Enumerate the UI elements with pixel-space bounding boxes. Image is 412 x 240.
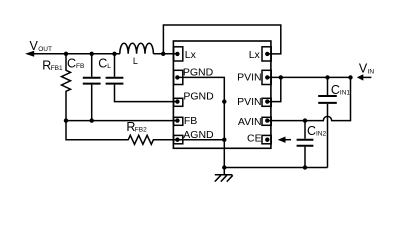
label CFB bbox=[67, 56, 84, 70]
capacitor CL bbox=[106, 54, 178, 102]
inductor L bbox=[120, 43, 178, 54]
svg-text:L: L bbox=[107, 63, 111, 70]
svg-text:C: C bbox=[67, 56, 76, 70]
resistor RFB2 bbox=[66, 121, 177, 145]
label VIN bbox=[359, 62, 375, 76]
pin Lx (left) bbox=[174, 47, 183, 61]
label CL bbox=[98, 56, 111, 70]
label CIN2 bbox=[307, 124, 327, 138]
wire PGND jumper to ground bbox=[177, 77, 226, 169]
svg-text:FB2: FB2 bbox=[135, 127, 147, 134]
pin PGND (upper left) bbox=[174, 70, 183, 84]
svg-text:C: C bbox=[98, 56, 107, 70]
IC body bbox=[173, 41, 271, 148]
svg-text:PGND: PGND bbox=[183, 90, 214, 102]
wire PVIN2 jumper bbox=[267, 77, 281, 101]
ground bbox=[215, 168, 233, 182]
svg-text:OUT: OUT bbox=[38, 46, 52, 53]
capacitor CIN2 bbox=[297, 121, 314, 170]
svg-text:C: C bbox=[307, 124, 316, 138]
svg-text:FB: FB bbox=[76, 63, 84, 70]
svg-text:PVIN: PVIN bbox=[237, 72, 262, 84]
wire AVIN row with hop over CIN1 bbox=[267, 77, 350, 122]
label RFB2 bbox=[126, 120, 147, 134]
node VOUT bbox=[25, 51, 120, 57]
wire ground rail bbox=[224, 167, 327, 169]
resistor RFB1 bbox=[62, 54, 71, 121]
svg-text:IN1: IN1 bbox=[340, 90, 351, 97]
wire FB row bbox=[64, 118, 178, 122]
label VOUT bbox=[30, 39, 52, 53]
svg-text:FB: FB bbox=[184, 115, 197, 127]
pin CE bbox=[262, 135, 271, 143]
label CIN1 bbox=[331, 83, 351, 97]
svg-text:IN2: IN2 bbox=[316, 131, 327, 138]
capacitor CIN1 bbox=[318, 77, 337, 167]
svg-text:V: V bbox=[30, 39, 39, 53]
junction dots on VOUT rail bbox=[64, 52, 117, 56]
wire Lx top loop bbox=[161, 25, 281, 56]
svg-text:C: C bbox=[331, 83, 340, 97]
label RFB1 bbox=[42, 58, 63, 72]
pin PVIN (lower) bbox=[262, 98, 271, 106]
svg-text:V: V bbox=[359, 62, 368, 76]
wire AGND to ground stem bbox=[177, 139, 224, 141]
pin AVIN bbox=[262, 117, 271, 125]
pin PGND (lower left) bbox=[174, 98, 183, 106]
pin AGND bbox=[174, 135, 183, 143]
svg-text:CE: CE bbox=[247, 133, 262, 145]
pin FB bbox=[174, 117, 183, 125]
pin Lx (right) bbox=[262, 47, 271, 61]
node VIN bbox=[357, 74, 372, 80]
svg-text:AGND: AGND bbox=[183, 129, 214, 141]
wire PVIN rail bbox=[267, 75, 352, 79]
svg-text:FB1: FB1 bbox=[51, 65, 63, 72]
svg-text:IN: IN bbox=[368, 68, 375, 75]
svg-text:PVIN: PVIN bbox=[237, 96, 262, 108]
svg-text:L: L bbox=[133, 56, 138, 66]
svg-text:AVIN: AVIN bbox=[238, 116, 262, 128]
svg-text:Lx: Lx bbox=[249, 49, 261, 61]
capacitor CFB bbox=[83, 54, 101, 121]
node CE input arrow bbox=[278, 137, 291, 143]
svg-text:Lx: Lx bbox=[185, 49, 197, 61]
pin PVIN (upper) bbox=[262, 70, 271, 84]
svg-text:PGND: PGND bbox=[183, 66, 214, 78]
